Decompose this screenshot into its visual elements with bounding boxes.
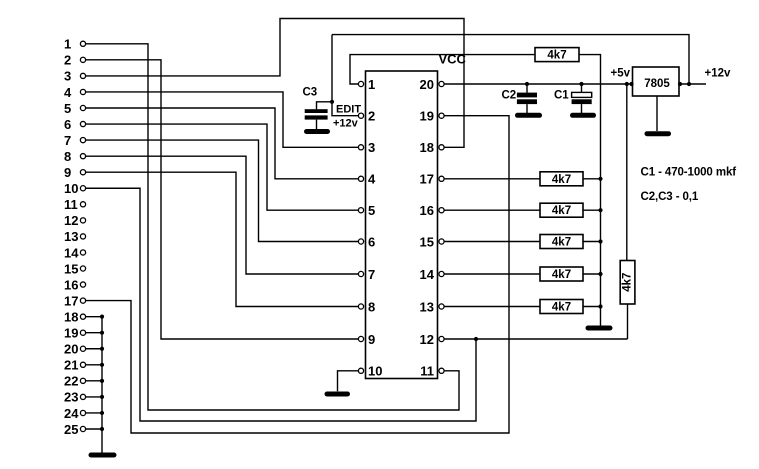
node DB25 pin 17 terminal xyxy=(80,298,85,303)
node IC pin 2 terminal xyxy=(358,113,363,118)
wire DB25.10 - IC pin 12 net xyxy=(86,188,476,421)
junction R2 ground bus xyxy=(598,177,602,181)
junction 7805 input pin xyxy=(629,82,633,86)
wire C1 bottom lead xyxy=(581,104,583,113)
node DB25 pin 19 terminal xyxy=(80,330,85,335)
wire DB25.22 to ground bus xyxy=(86,380,102,382)
svg-text:16: 16 xyxy=(420,203,434,218)
svg-text:9: 9 xyxy=(64,165,71,180)
ground 7805 xyxy=(647,131,669,136)
node IC pin 16 terminal xyxy=(439,208,444,213)
node IC pin 1 terminal xyxy=(358,81,363,86)
svg-text:19: 19 xyxy=(64,326,78,341)
svg-text:20: 20 xyxy=(64,342,78,357)
svg-text:4: 4 xyxy=(368,172,376,187)
node IC pin 14 terminal xyxy=(439,271,444,276)
svg-text:15: 15 xyxy=(420,234,434,249)
resistor R4 4k7 xyxy=(540,235,583,249)
capacitor C3 plates xyxy=(305,109,328,119)
node IC pin 7 terminal xyxy=(358,271,363,276)
svg-text:12: 12 xyxy=(64,213,78,228)
ground C2 xyxy=(518,113,540,118)
svg-text:C2,C3 - 0,1: C2,C3 - 0,1 xyxy=(641,191,699,203)
junction DB25.25 bus xyxy=(100,427,104,431)
svg-text:10: 10 xyxy=(368,364,382,379)
ground DB25 bus xyxy=(91,453,114,458)
svg-text:21: 21 xyxy=(64,358,78,373)
junction C2 on +5v rail xyxy=(525,82,529,86)
svg-text:1: 1 xyxy=(64,37,71,52)
capacitor C1 plates (electrolytic) xyxy=(572,92,592,97)
svg-text:C2: C2 xyxy=(502,90,517,102)
junction DB25.22 bus xyxy=(100,379,104,383)
svg-text:C3: C3 xyxy=(303,87,318,99)
op IC U1 DD1 20-pin body xyxy=(366,71,438,379)
svg-text:25: 25 xyxy=(64,422,78,437)
svg-text:8: 8 xyxy=(64,149,71,164)
wire DB25.23 to ground bus xyxy=(86,396,102,398)
node DB25 pin 3 terminal xyxy=(80,73,85,78)
wire DB25.5 - IC pin 4 xyxy=(86,108,358,179)
wire R1 right to ground bus xyxy=(579,55,601,326)
svg-text:9: 9 xyxy=(368,332,375,347)
junction R6 ground bus xyxy=(598,304,602,308)
svg-text:12: 12 xyxy=(420,332,434,347)
node DB25 pin 13 terminal xyxy=(80,234,85,239)
wire +5v to resistor R7 top xyxy=(626,84,628,261)
node IC pin 5 terminal xyxy=(358,208,363,213)
junction DB25.18 bus xyxy=(100,315,104,319)
node DB25 pin 18 terminal xyxy=(80,314,85,319)
svg-text:24: 24 xyxy=(64,406,79,421)
node IC pin 17 terminal xyxy=(439,176,444,181)
wire DB25.4 - IC pin 3 xyxy=(86,92,358,147)
svg-text:C1 - 470-1000 mkf: C1 - 470-1000 mkf xyxy=(641,167,737,179)
wire DB25.20 to ground bus xyxy=(86,348,102,350)
ground resistor bus xyxy=(588,326,610,331)
svg-text:+5v: +5v xyxy=(611,68,631,80)
svg-text:C1: C1 xyxy=(554,90,569,102)
node DB25 pin 10 terminal xyxy=(80,186,85,191)
junction DB25.24 bus xyxy=(100,411,104,415)
svg-text:15: 15 xyxy=(64,261,78,276)
wire EDIT junction to IC pin 2 xyxy=(332,102,358,116)
node DB25 pin 4 terminal xyxy=(80,89,85,94)
resistor R7 4k7 (vertical) xyxy=(620,261,635,305)
resistor R2 4k7 xyxy=(540,172,583,186)
node IC pin 18 terminal xyxy=(439,145,444,150)
svg-text:7: 7 xyxy=(368,267,375,282)
wire DB25.21 to ground bus xyxy=(86,364,102,366)
wire IC pin 12 xyxy=(444,338,627,340)
svg-text:4k7: 4k7 xyxy=(552,174,571,186)
wire R2 right to ground bus xyxy=(583,178,601,180)
svg-text:23: 23 xyxy=(64,390,78,405)
wire R6 right to ground bus xyxy=(583,306,601,308)
junction R4 ground bus xyxy=(598,239,602,243)
svg-text:19: 19 xyxy=(420,109,434,124)
node IC pin 12 terminal xyxy=(439,336,444,341)
node DB25 pin 23 terminal xyxy=(80,394,85,399)
wire C2 top lead xyxy=(526,84,528,93)
resistor R3 4k7 xyxy=(540,203,583,217)
svg-text:17: 17 xyxy=(64,293,78,308)
svg-text:4k7: 4k7 xyxy=(547,50,566,62)
wire DB25.2 - IC pin 9 xyxy=(86,60,358,339)
svg-text:11: 11 xyxy=(420,364,434,379)
wire C3 top lead xyxy=(317,102,333,109)
node IC pin 15 terminal xyxy=(439,239,444,244)
svg-text:13: 13 xyxy=(64,229,78,244)
junction C1 on +5v rail xyxy=(579,82,583,86)
svg-text:4k7: 4k7 xyxy=(552,269,571,281)
wire IC pin 1 to resistor R1 xyxy=(350,55,535,84)
node DB25 pin 24 terminal xyxy=(80,410,85,415)
svg-text:11: 11 xyxy=(64,197,78,212)
svg-text:7805: 7805 xyxy=(644,78,670,90)
wire DB25.6 - IC pin 5 xyxy=(86,124,358,210)
ground C3 xyxy=(307,129,328,134)
node IC pin 8 terminal xyxy=(358,304,363,309)
svg-text:2: 2 xyxy=(64,53,71,68)
svg-text:5: 5 xyxy=(368,203,375,218)
junction DB25.20 bus xyxy=(100,347,104,351)
node DB25 pin 22 terminal xyxy=(80,378,85,383)
svg-text:4k7: 4k7 xyxy=(552,205,571,217)
svg-text:1: 1 xyxy=(368,77,375,92)
node IC pin 6 terminal xyxy=(358,239,363,244)
svg-text:EDIT: EDIT xyxy=(336,104,361,116)
capacitor C2 plates xyxy=(517,93,537,105)
ground IC pin 10 xyxy=(327,392,348,397)
wire IC pin 10 to ground xyxy=(338,371,359,392)
wire IC pin 16 to resistor R3 xyxy=(444,209,540,211)
node DB25 pin 9 terminal xyxy=(80,170,85,175)
svg-text:3: 3 xyxy=(64,69,71,84)
wire DB25.8 - IC pin 7 xyxy=(86,156,358,274)
svg-text:VCC: VCC xyxy=(439,52,467,67)
wire IC pin 15 to resistor R4 xyxy=(444,241,540,243)
node IC pin 10 terminal xyxy=(358,368,363,373)
wire DB25.19 to ground bus xyxy=(86,332,102,334)
wire DB25.24 to ground bus xyxy=(86,412,102,414)
node IC pin 9 terminal xyxy=(358,336,363,341)
wire R3 right to ground bus xyxy=(583,209,601,211)
svg-text:3: 3 xyxy=(368,140,375,155)
wire DB25.1 - IC pin 11 xyxy=(86,44,459,410)
ground C1 xyxy=(573,113,594,118)
svg-text:16: 16 xyxy=(64,277,78,292)
node IC pin 20 terminal xyxy=(439,81,444,86)
junction 7805 output pin xyxy=(678,82,682,86)
wire R7 bottom to IC pin 12 xyxy=(627,304,629,339)
node DB25 pin 8 terminal xyxy=(80,154,85,159)
wire +12v top rail xyxy=(332,35,689,84)
svg-text:4k7: 4k7 xyxy=(552,302,571,314)
svg-text:4k7: 4k7 xyxy=(622,273,634,292)
svg-text:20: 20 xyxy=(420,77,434,92)
svg-text:4: 4 xyxy=(64,85,72,100)
junction DB25.21 bus xyxy=(100,363,104,367)
svg-text:18: 18 xyxy=(64,309,78,324)
svg-text:14: 14 xyxy=(420,267,435,282)
node DB25 pin 16 terminal xyxy=(80,282,85,287)
junction EDIT node xyxy=(330,100,334,104)
junction R5 ground bus xyxy=(598,272,602,276)
junction DB25.19 bus xyxy=(100,331,104,335)
node DB25 pin 7 terminal xyxy=(80,138,85,143)
resistor R1 4k7 (top) xyxy=(535,48,579,62)
node DB25 pin 2 terminal xyxy=(80,57,85,62)
svg-text:2: 2 xyxy=(368,109,375,124)
wire 7805 ground lead xyxy=(656,96,658,131)
regulator U2 7805 body xyxy=(633,67,680,96)
wire IC pin 17 to resistor R2 xyxy=(444,178,540,180)
node IC pin 19 terminal xyxy=(439,113,444,118)
wire +12v riser to EDIT junction xyxy=(331,35,333,102)
node DB25 pin 14 terminal xyxy=(80,250,85,255)
node DB25 pin 6 terminal xyxy=(80,121,85,126)
node DB25 pin 5 terminal xyxy=(80,105,85,110)
svg-text:22: 22 xyxy=(64,374,78,389)
junction +12v node xyxy=(687,82,691,86)
node IC pin 3 terminal xyxy=(358,145,363,150)
svg-text:13: 13 xyxy=(420,299,434,314)
svg-text:+12v: +12v xyxy=(705,68,732,80)
node IC pin 11 terminal xyxy=(439,368,444,373)
node DB25 pin 21 terminal xyxy=(80,362,85,367)
junction vertical resistor top on +5v rail xyxy=(625,82,629,86)
wire DB25.9 - IC pin 8 xyxy=(86,172,358,306)
node DB25 pin 1 terminal xyxy=(80,41,85,46)
svg-text:+12v: +12v xyxy=(333,118,359,130)
node DB25 pin 11 terminal xyxy=(80,202,85,207)
wire DB25.25 to ground bus xyxy=(86,428,102,430)
node DB25 pin 12 terminal xyxy=(80,218,85,223)
svg-text:14: 14 xyxy=(64,245,79,260)
resistor R5 4k7 xyxy=(540,267,583,281)
svg-text:8: 8 xyxy=(368,299,375,314)
wire R4 right to ground bus xyxy=(583,241,601,243)
wire C2 bottom lead xyxy=(526,104,528,113)
wire DB25.17 - IC pin 19 xyxy=(86,116,509,433)
wire 7805 output to +12v xyxy=(679,83,706,85)
svg-text:17: 17 xyxy=(420,172,434,187)
svg-text:10: 10 xyxy=(64,181,78,196)
svg-text:6: 6 xyxy=(64,117,71,132)
svg-text:6: 6 xyxy=(368,234,375,249)
svg-text:18: 18 xyxy=(420,140,434,155)
wire C3 bottom lead xyxy=(316,120,318,130)
wire R5 right to ground bus xyxy=(583,273,601,275)
svg-text:4k7: 4k7 xyxy=(552,237,571,249)
svg-text:7: 7 xyxy=(64,133,71,148)
wire +5v rail IC pin 20 VCC to 7805 input xyxy=(444,83,632,85)
wire DB25.3 - IC pin 18 xyxy=(86,19,464,148)
node DB25 pin 20 terminal xyxy=(80,346,85,351)
resistor R6 4k7 xyxy=(540,300,583,314)
wire ground bus DB25 pins 18-25 xyxy=(101,317,103,453)
wire IC pin 13 to resistor R6 xyxy=(444,306,540,308)
wire DB25.18 to ground bus xyxy=(86,316,102,318)
wire C1 top lead xyxy=(581,84,583,92)
junction R3 ground bus xyxy=(598,208,602,212)
svg-text:5: 5 xyxy=(64,101,71,116)
wire DB25.7 - IC pin 6 xyxy=(86,140,358,241)
node IC pin 4 terminal xyxy=(358,176,363,181)
wire IC pin 14 to resistor R5 xyxy=(444,273,540,275)
junction DB25.23 bus xyxy=(100,395,104,399)
node DB25 pin 15 terminal xyxy=(80,266,85,271)
node IC pin 13 terminal xyxy=(439,304,444,309)
node DB25 pin 25 terminal xyxy=(80,426,85,431)
junction IC pin 12 / DB25.10 net xyxy=(474,337,478,341)
